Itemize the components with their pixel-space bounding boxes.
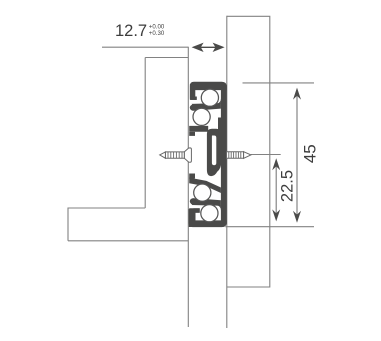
svg-text:45: 45 — [300, 144, 319, 163]
cabinet side panel — [227, 16, 270, 287]
slide inner rail bar under ball B2 — [189, 126, 208, 132]
screw right tip — [244, 152, 251, 159]
slide intermediate rail top bar — [192, 103, 221, 110]
arrowhead 12.7 left — [192, 43, 204, 52]
slide inner rail step under bar — [189, 132, 195, 136]
wire cabinet side face line — [226, 16, 228, 328]
wire cabinet step top — [68, 207, 145, 209]
wire cabinet bottom edge — [68, 240, 188, 242]
slide top lip column — [190, 84, 194, 100]
screw left threads — [168, 152, 182, 158]
wire drawer face line — [187, 47, 189, 327]
double arrow 12.7 shaft — [199, 46, 217, 48]
slide pre-ring connector — [218, 118, 222, 132]
wire screw center line — [251, 154, 281, 156]
screw left tip — [160, 152, 166, 158]
wire drawer panel top edge — [145, 57, 188, 59]
ball bearing B4 — [201, 205, 218, 222]
wire cabinet step left — [67, 208, 69, 241]
ball bearing B3 — [194, 184, 211, 201]
svg-text:22.5: 22.5 — [279, 170, 297, 202]
svg-text:+0.30: +0.30 — [149, 30, 165, 37]
dimension line 45 — [296, 91, 298, 220]
dimension line 22.5 — [275, 161, 277, 219]
arrowhead 45 up — [293, 88, 301, 100]
screw left shank — [165, 152, 184, 158]
slide bottom foot — [193, 208, 199, 212]
slide outer rail right web — [221, 85, 227, 224]
screw left head — [184, 148, 191, 162]
ball bearing B2 — [193, 108, 210, 125]
slide intermediate rail bottom bar — [192, 199, 221, 206]
slide top foot — [194, 97, 197, 100]
slide outer rail top flange and lip — [190, 82, 227, 100]
screw right shank — [227, 152, 244, 159]
fillet bar to web bottom — [217, 205, 221, 210]
arrowhead 12.7 right — [213, 43, 225, 52]
fillet bar to web top — [217, 99, 221, 104]
svg-text:12.7: 12.7 — [115, 22, 147, 40]
slide intermediate bottom bar left blob — [190, 198, 198, 204]
arrowhead 22.5 up — [272, 158, 280, 170]
slide outer rail bottom flange and lip — [189, 208, 227, 227]
slide bottom lip column — [189, 209, 194, 227]
wire extension line bottom 45 — [225, 226, 314, 228]
slide inner rail step above band — [189, 174, 195, 179]
wire extension line top 45 — [243, 82, 315, 84]
arrowhead 22.5 down — [272, 209, 280, 221]
slide inner rail bottom band — [189, 178, 221, 193]
slide inner rail ring with slot — [207, 129, 221, 176]
slide intermediate bar left blob — [190, 104, 198, 110]
wire drawer panel left edge — [144, 58, 146, 209]
screw right threads — [229, 152, 241, 159]
arrowhead 45 down — [293, 211, 301, 223]
ball bearing B1 — [201, 89, 218, 106]
wire dimension leader 12.7 — [102, 46, 188, 48]
